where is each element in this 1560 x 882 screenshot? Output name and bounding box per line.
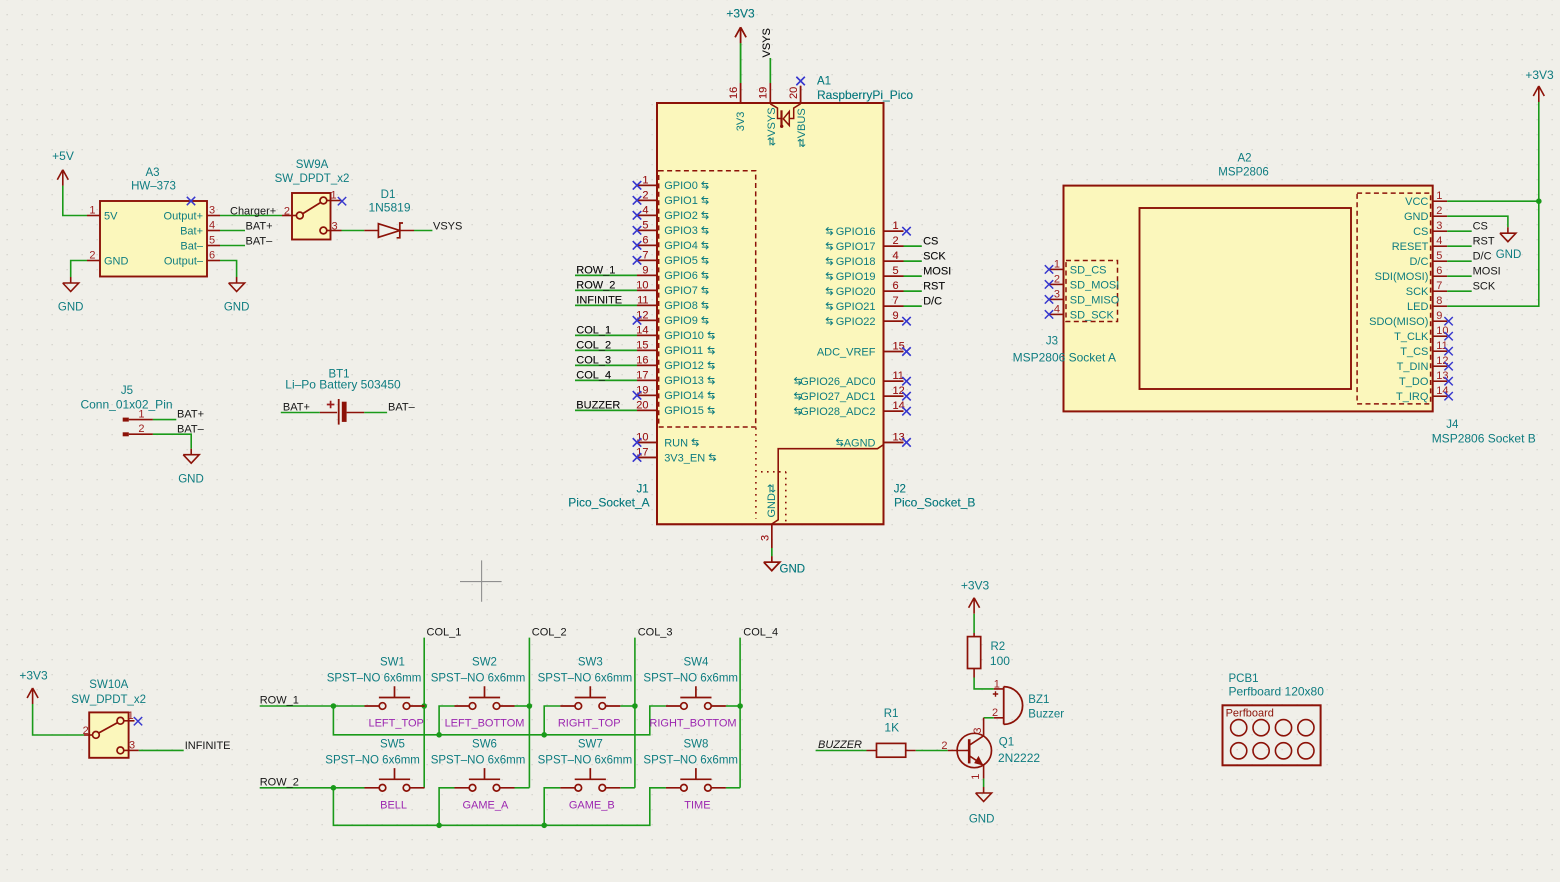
svg-text:LEFT_TOP: LEFT_TOP xyxy=(368,718,423,730)
no-connect X on SD_MISO xyxy=(1045,295,1053,303)
junction COL_1/SW1 xyxy=(421,703,427,709)
junction bypass1/SW2 xyxy=(436,732,442,738)
no-connect X on GPIO27_ADC1 xyxy=(902,392,910,400)
svg-text:1: 1 xyxy=(89,205,95,217)
svg-text:Q1: Q1 xyxy=(999,737,1014,749)
Pico pin 6 (GPIO20) xyxy=(826,280,903,298)
svg-text:ROW_1: ROW_1 xyxy=(576,265,615,277)
wire +3V3 to R2 xyxy=(973,614,975,633)
Pico pin 16 (GPIO12) xyxy=(636,354,714,372)
wire BAT- (BT1 right) xyxy=(364,402,415,414)
wire VSYS net xyxy=(414,221,462,233)
svg-text:2: 2 xyxy=(941,740,947,752)
crosshair origin marker xyxy=(460,560,502,601)
no-connect X on GPIO14 xyxy=(633,391,641,399)
wire BAT- stub (A3 pin5) xyxy=(220,236,273,248)
svg-text:D/C: D/C xyxy=(1473,251,1492,263)
svg-text:Bat–: Bat– xyxy=(180,241,204,253)
wire ROW_1 riser SW3 xyxy=(544,706,560,735)
svg-text:SPST–NO 6x6mm: SPST–NO 6x6mm xyxy=(538,673,633,685)
SW9A pin 1 xyxy=(327,190,342,202)
no-connect X on GPIO2 xyxy=(633,211,641,219)
dashed J4 group box xyxy=(1357,193,1431,404)
svg-text:GPIO6: GPIO6 xyxy=(664,270,698,282)
svg-text:GPIO20: GPIO20 xyxy=(836,286,876,298)
svg-text:J1: J1 xyxy=(637,484,649,496)
svg-text:D1: D1 xyxy=(381,189,396,201)
A2 pin 7 (SCK) xyxy=(1406,280,1447,298)
no-connect X on GPIO22 xyxy=(902,317,910,325)
svg-text:2: 2 xyxy=(1436,205,1442,217)
no-connect X on AGND xyxy=(902,438,910,446)
no-connect X on GPIO22 xyxy=(902,317,910,325)
no-connect X on SD_SCK xyxy=(1045,310,1053,318)
svg-text:GPIO17: GPIO17 xyxy=(836,241,876,253)
svg-text:1: 1 xyxy=(1054,258,1060,270)
junction ROW_2/SW5 xyxy=(331,785,337,791)
wire SW6 to COL_2 xyxy=(515,787,530,789)
svg-text:1N5819: 1N5819 xyxy=(368,201,410,215)
no-connect X on GPIO27_ADC1 xyxy=(902,392,910,400)
wire label COL_4 xyxy=(575,370,637,382)
svg-text:MSP2806: MSP2806 xyxy=(1218,167,1269,179)
display module A2 MSP2806 body xyxy=(1064,153,1433,412)
wire label D/C xyxy=(904,296,943,308)
svg-text:12: 12 xyxy=(1436,355,1448,367)
no-connect X on GPIO28_ADC2 xyxy=(902,407,910,415)
svg-text:RST: RST xyxy=(1473,236,1495,248)
svg-text:1: 1 xyxy=(138,409,144,421)
svg-text:Pico_Socket_A: Pico_Socket_A xyxy=(568,496,649,510)
svg-text:GPIO9: GPIO9 xyxy=(664,315,698,327)
svg-text:D/C: D/C xyxy=(1409,256,1428,268)
svg-text:3: 3 xyxy=(1054,288,1060,300)
dotted unit separator xyxy=(755,428,757,519)
buzzer BZ1 xyxy=(992,678,1064,724)
svg-text:D/C: D/C xyxy=(923,296,942,308)
svg-text:SW3: SW3 xyxy=(578,657,603,669)
A3 pin 5 xyxy=(207,235,220,247)
Pico pin 1 (GPIO0) xyxy=(637,174,708,192)
svg-text:3: 3 xyxy=(129,739,135,751)
A2 pin 1 (VCC) xyxy=(1405,190,1447,208)
SW9A pin 2 xyxy=(282,206,296,218)
A2 pin 3 (CS) xyxy=(1413,220,1447,238)
no-connect X on GPIO0 xyxy=(633,181,641,189)
A2 pin 1 (SD_CS) xyxy=(1049,258,1106,276)
wire LED to +3V3 xyxy=(1447,201,1539,306)
svg-text:1: 1 xyxy=(331,190,337,202)
no-connect X on GPIO28_ADC2 xyxy=(902,407,910,415)
svg-text:PCB1: PCB1 xyxy=(1229,673,1259,685)
svg-text:GPIO14: GPIO14 xyxy=(664,390,704,402)
svg-text:SCK: SCK xyxy=(923,251,946,263)
wire BAT- (J5 pin2) xyxy=(153,423,205,448)
resistor R2 100 xyxy=(968,633,1011,678)
svg-text:BAT–: BAT– xyxy=(246,236,274,248)
svg-text:CS: CS xyxy=(1413,226,1428,238)
wire ROW_2 riser SW7 xyxy=(544,788,560,826)
Pico pin 17 (GPIO13) xyxy=(636,369,714,387)
wire label COL_4 xyxy=(575,370,637,382)
svg-text:7: 7 xyxy=(642,249,648,261)
Pico pin 14 (GPIO28_ADC2) xyxy=(795,400,905,418)
wire label ROW_1 xyxy=(575,265,637,277)
Pico pin 19 (GPIO14) xyxy=(636,384,714,402)
svg-text:9: 9 xyxy=(1436,310,1442,322)
wire VSYS to pin19 xyxy=(761,28,773,83)
wire label ROW_2 xyxy=(575,280,637,292)
svg-text:17: 17 xyxy=(636,369,648,381)
no-connect X on GPIO4 xyxy=(633,241,641,249)
svg-text:5: 5 xyxy=(209,235,215,247)
svg-text:⇄VSYS: ⇄VSYS xyxy=(766,107,778,146)
power +3V3 (Pico pin16) xyxy=(726,7,755,44)
svg-text:GAME_A: GAME_A xyxy=(462,800,509,812)
svg-text:11: 11 xyxy=(1436,340,1447,352)
svg-text:BELL: BELL xyxy=(380,800,407,812)
svg-text:GND⇄: GND⇄ xyxy=(766,484,778,518)
svg-text:INFINITE: INFINITE xyxy=(185,740,231,752)
Pico pin 5 (GPIO3) xyxy=(637,219,708,237)
svg-text:COL_4: COL_4 xyxy=(743,627,778,639)
wire ROW_2 bypass xyxy=(333,788,666,826)
svg-text:SDO(MISO): SDO(MISO) xyxy=(1369,316,1428,328)
no-connect X on RUN xyxy=(633,438,641,446)
svg-text:COL_3: COL_3 xyxy=(638,627,673,639)
no-connect X on GPIO26_ADC0 xyxy=(902,377,910,385)
svg-text:15: 15 xyxy=(893,341,905,353)
svg-text:SD_MISO: SD_MISO xyxy=(1070,294,1120,306)
svg-text:HW–373: HW–373 xyxy=(131,181,176,193)
svg-text:7: 7 xyxy=(1436,280,1442,292)
svg-text:COL_3: COL_3 xyxy=(576,355,611,367)
no-connect X on T_IRQ xyxy=(1444,392,1452,400)
dashed GPIO group box xyxy=(659,171,756,427)
wire BZ1 pin2 to Q1 collector xyxy=(984,717,994,719)
A2 pin 2 (SD_MOSI) xyxy=(1049,273,1119,291)
IC A1 RaspberryPi_Pico body xyxy=(657,75,913,524)
svg-text:19: 19 xyxy=(758,87,770,99)
svg-text:SW_DPDT_x2: SW_DPDT_x2 xyxy=(71,694,146,706)
svg-text:2N2222: 2N2222 xyxy=(998,751,1040,765)
Pico pin 20 (GPIO15) xyxy=(636,399,714,417)
Pico pin 4 (GPIO2) xyxy=(637,204,708,222)
svg-text:GPIO27_ADC1: GPIO27_ADC1 xyxy=(800,391,875,403)
svg-text:GPIO10: GPIO10 xyxy=(664,330,704,342)
svg-text:14: 14 xyxy=(636,324,648,336)
Pico pin 7 (GPIO5) xyxy=(637,249,708,267)
Pico pin 2 (GPIO17) xyxy=(826,235,903,253)
svg-text:MSP2806 Socket A: MSP2806 Socket A xyxy=(1013,350,1116,364)
wire SW3 to COL_3 xyxy=(620,705,635,707)
no-connect X on GPIO16 xyxy=(902,227,910,235)
svg-text:T_DIN: T_DIN xyxy=(1397,361,1429,373)
svg-text:2: 2 xyxy=(284,206,290,218)
svg-text:RIGHT_BOTTOM: RIGHT_BOTTOM xyxy=(649,718,736,730)
svg-text:4: 4 xyxy=(1436,235,1442,247)
svg-text:16: 16 xyxy=(636,354,648,366)
ground GND (A3 pin2) xyxy=(58,261,87,314)
svg-text:Conn_01x02_Pin: Conn_01x02_Pin xyxy=(80,397,172,411)
no-connect X on GPIO26_ADC0 xyxy=(902,377,910,385)
perfboard PCB1 120x80 xyxy=(1223,673,1325,765)
svg-text:SPST–NO 6x6mm: SPST–NO 6x6mm xyxy=(431,673,526,685)
wire label RST xyxy=(904,281,946,293)
svg-text:+3V3: +3V3 xyxy=(1525,68,1554,82)
wire VCC to +3V3 xyxy=(1447,102,1539,201)
wire label D/C xyxy=(904,296,943,308)
junction bypass1/SW3 xyxy=(541,732,547,738)
svg-text:GPIO18: GPIO18 xyxy=(836,256,876,268)
no-connect X on 3V3_EN xyxy=(633,453,641,461)
Pico pin 15 (ADC_VREF) xyxy=(817,341,905,359)
A3 pin 2 xyxy=(87,250,100,262)
svg-text:13: 13 xyxy=(1436,370,1448,382)
Pico pin 4 (GPIO2) xyxy=(637,204,708,222)
svg-text:R2: R2 xyxy=(991,641,1006,653)
A2 pin 5 (D/C) xyxy=(1409,250,1447,268)
svg-text:10: 10 xyxy=(636,279,648,291)
svg-text:Perfboard: Perfboard xyxy=(1226,708,1274,720)
junction COL_3/SW3 xyxy=(632,703,638,709)
no-connect X on GPIO5 xyxy=(633,256,641,264)
no-connect X on T_DIN xyxy=(1444,362,1452,370)
no-connect X Pico pin20 VBUS xyxy=(796,77,804,85)
svg-text:4: 4 xyxy=(209,220,215,232)
svg-text:Pico_Socket_B: Pico_Socket_B xyxy=(894,496,975,510)
dotted GND group box xyxy=(761,472,786,523)
svg-text:GPIO28_ADC2: GPIO28_ADC2 xyxy=(800,406,875,418)
svg-text:GPIO5: GPIO5 xyxy=(664,255,698,267)
svg-text:SPST–NO 6x6mm: SPST–NO 6x6mm xyxy=(643,754,738,766)
wire label RST (A2) xyxy=(1447,236,1495,248)
wire Q1 emitter to GND xyxy=(983,779,985,787)
svg-text:RaspberryPi_Pico: RaspberryPi_Pico xyxy=(817,88,913,102)
no-connect X on SD_CS xyxy=(1045,265,1053,273)
Pico pin 19 (GPIO14) xyxy=(636,384,714,402)
svg-text:SD_MOSI: SD_MOSI xyxy=(1070,279,1120,291)
A2 pin 3 (SD_MISO) xyxy=(1049,288,1120,306)
Pico pin 7 (GPIO5) xyxy=(637,249,708,267)
svg-text:2: 2 xyxy=(642,189,648,201)
Pico pin 5 (GPIO19) xyxy=(826,265,903,283)
wire ROW_1 xyxy=(260,695,365,707)
no-connect X on GPIO9 xyxy=(633,316,641,324)
wire label SCK (A2) xyxy=(1447,281,1496,293)
A2 pin 8 (LED) xyxy=(1407,295,1447,313)
display screen rectangle xyxy=(1140,208,1352,389)
svg-text:GAME_B: GAME_B xyxy=(569,800,615,812)
svg-text:7: 7 xyxy=(893,295,899,307)
svg-text:T_CS: T_CS xyxy=(1400,346,1428,358)
svg-text:3: 3 xyxy=(972,727,984,733)
Pico pin 2 (GPIO1) xyxy=(637,189,708,207)
wire R2 to BZ1 pin1 xyxy=(974,678,994,689)
no-connect X on GPIO4 xyxy=(633,241,641,249)
power +5V xyxy=(52,149,74,186)
svg-text:GND: GND xyxy=(178,474,204,486)
Pico pin 9 (GPIO22) xyxy=(826,310,903,328)
svg-text:SPST–NO 6x6mm: SPST–NO 6x6mm xyxy=(431,754,526,766)
svg-text:5V: 5V xyxy=(104,211,118,223)
no-connect X on RUN xyxy=(633,438,641,446)
Pico pin 6 (GPIO4) xyxy=(637,234,708,252)
Pico pin 3 (GND) xyxy=(759,484,778,548)
Pico pin 2 (GPIO1) xyxy=(637,189,708,207)
svg-text:T_IRQ: T_IRQ xyxy=(1396,391,1429,403)
wire label ROW_1 xyxy=(575,265,637,277)
svg-text:ROW_2: ROW_2 xyxy=(260,776,299,788)
Pico pin 13 (AGND) xyxy=(837,431,905,449)
svg-text:GND: GND xyxy=(224,302,250,314)
Pico pin 1 (GPIO16) xyxy=(826,220,903,238)
no-connect X on GPIO5 xyxy=(633,256,641,264)
ground GND (A2) xyxy=(1496,227,1522,261)
power +3V3 (A2) xyxy=(1525,68,1554,102)
svg-text:+3V3: +3V3 xyxy=(961,578,990,592)
wire COL_4 vertical xyxy=(740,627,778,788)
svg-text:AGND: AGND xyxy=(844,437,876,449)
no-connect X on GPIO3 xyxy=(633,226,641,234)
Pico pin 9 (GPIO22) xyxy=(826,310,903,328)
Pico pin 20 (GPIO15) xyxy=(636,399,714,417)
svg-text:20: 20 xyxy=(636,399,648,411)
svg-text:GND: GND xyxy=(780,564,806,576)
A2 pin 10 (T_CLK) xyxy=(1394,325,1448,343)
svg-text:SW7: SW7 xyxy=(578,738,603,750)
svg-text:6: 6 xyxy=(642,234,648,246)
svg-text:RESET: RESET xyxy=(1392,241,1429,253)
wire label COL_2 xyxy=(575,340,637,352)
switch SW7 SPST-NO 6x6mm xyxy=(538,738,633,791)
A2 pin 12 (T_DIN) xyxy=(1397,355,1449,373)
svg-text:RIGHT_TOP: RIGHT_TOP xyxy=(558,718,621,730)
svg-text:COL_1: COL_1 xyxy=(576,325,611,337)
Pico pin 12 (GPIO27_ADC1) xyxy=(795,385,905,403)
svg-text:GND: GND xyxy=(104,256,129,268)
svg-text:Perfboard 120x80: Perfboard 120x80 xyxy=(1229,684,1325,698)
ground GND (Pico) xyxy=(764,556,805,575)
dashed GPIO group box xyxy=(659,171,756,427)
svg-text:9: 9 xyxy=(893,310,899,322)
Pico pin 10 (GPIO7) xyxy=(636,279,708,297)
no-connect X on GPIO3 xyxy=(633,226,641,234)
A3 pin 1 xyxy=(87,205,100,217)
svg-text:J2: J2 xyxy=(894,484,906,496)
no-connect X on T_CS xyxy=(1444,347,1452,355)
svg-text:A3: A3 xyxy=(145,167,159,179)
perfboard holes xyxy=(1231,720,1314,759)
Pico pin 20 (VBUS) xyxy=(788,86,808,148)
svg-text:6: 6 xyxy=(209,250,215,262)
Pico pin 3 (GND) xyxy=(759,484,778,548)
svg-text:GND: GND xyxy=(58,302,84,314)
svg-text:+3V3: +3V3 xyxy=(19,668,48,682)
svg-text:3V3_EN: 3V3_EN xyxy=(664,452,705,464)
battery BT1 Li-Po 503450 xyxy=(285,369,401,425)
wire GND (A2 pin2) xyxy=(1447,216,1508,227)
svg-text:SW9A: SW9A xyxy=(296,159,329,171)
junction bypass2/SW7 xyxy=(541,823,547,829)
svg-text:SW1: SW1 xyxy=(380,657,405,669)
Pico pin 19 (VSYS) xyxy=(758,83,778,146)
wire INFINITE net xyxy=(139,740,231,752)
svg-text:J3: J3 xyxy=(1046,336,1058,348)
svg-text:1K: 1K xyxy=(884,720,899,734)
A2 pin 11 (T_CS) xyxy=(1400,340,1447,358)
svg-text:COL_4: COL_4 xyxy=(576,370,611,382)
svg-text:CS: CS xyxy=(923,236,938,248)
Pico pin 4 (GPIO18) xyxy=(826,250,903,268)
Pico pin 16 (GPIO12) xyxy=(636,354,714,372)
Pico pin 9 (GPIO6) xyxy=(637,264,708,282)
wire SW8 to COL_4 xyxy=(726,787,740,789)
no-connect X on AGND xyxy=(902,438,910,446)
wire SW2 to COL_2 xyxy=(515,705,530,707)
Pico pin 6 (GPIO4) xyxy=(637,234,708,252)
Pico pin 5 (GPIO19) xyxy=(826,265,903,283)
svg-text:ROW_1: ROW_1 xyxy=(260,695,299,707)
svg-text:BAT+: BAT+ xyxy=(246,221,273,233)
Pico pin 5 (GPIO3) xyxy=(637,219,708,237)
svg-text:J4: J4 xyxy=(1446,419,1459,431)
SW9A pin 3 xyxy=(327,221,342,233)
no-connect X on GPIO16 xyxy=(902,227,910,235)
Pico pin 19 (VSYS) xyxy=(758,83,778,146)
svg-text:SPST–NO 6x6mm: SPST–NO 6x6mm xyxy=(325,754,420,766)
svg-text:GPIO19: GPIO19 xyxy=(836,271,876,283)
svg-text:6: 6 xyxy=(893,280,899,292)
Pico pin 4 (GPIO18) xyxy=(826,250,903,268)
ground GND (Pico) xyxy=(764,556,805,575)
wire +5V to A3 pin1 xyxy=(63,186,87,216)
Pico pin 17 (GPIO13) xyxy=(636,369,714,387)
Pico pin 12 (GPIO27_ADC1) xyxy=(795,385,905,403)
power +3V3 (SW10A) xyxy=(19,668,48,704)
svg-text:20: 20 xyxy=(788,87,800,99)
svg-text:SW5: SW5 xyxy=(380,738,405,750)
Pico pin 15 (GPIO11) xyxy=(636,339,714,357)
wire SW4 to COL_4 xyxy=(726,705,740,707)
Pico pin 9 (GPIO6) xyxy=(637,264,708,282)
wire BUZZER net xyxy=(816,739,867,751)
svg-text:GPIO3: GPIO3 xyxy=(664,225,698,237)
switch SW6 SPST-NO 6x6mm xyxy=(431,738,526,791)
Pico pin 10 (GPIO7) xyxy=(636,279,708,297)
svg-text:SW6: SW6 xyxy=(472,738,497,750)
A2 pin 14 (T_IRQ) xyxy=(1396,385,1449,403)
svg-text:R1: R1 xyxy=(884,708,899,720)
wire label COL_1 xyxy=(575,325,637,337)
no-connect X on ADC_VREF xyxy=(902,347,910,355)
svg-text:SW10A: SW10A xyxy=(89,679,128,691)
svg-text:12: 12 xyxy=(893,385,905,397)
wire BAT+ (BT1 left) xyxy=(281,402,320,414)
svg-text:GPIO0: GPIO0 xyxy=(664,180,698,192)
svg-text:GND: GND xyxy=(1496,249,1522,261)
Pico pin 15 (ADC_VREF) xyxy=(817,341,905,359)
svg-text:2: 2 xyxy=(83,725,89,737)
svg-text:CS: CS xyxy=(1473,221,1488,233)
svg-text:SCK: SCK xyxy=(1406,286,1429,298)
Pico pin 14 (GPIO28_ADC2) xyxy=(795,400,905,418)
svg-text:Buzzer: Buzzer xyxy=(1028,708,1064,720)
wire label MOSI xyxy=(904,266,952,278)
svg-text:1: 1 xyxy=(970,774,982,780)
svg-text:A2: A2 xyxy=(1237,153,1251,165)
no-connect X on T_DO xyxy=(1444,377,1452,385)
